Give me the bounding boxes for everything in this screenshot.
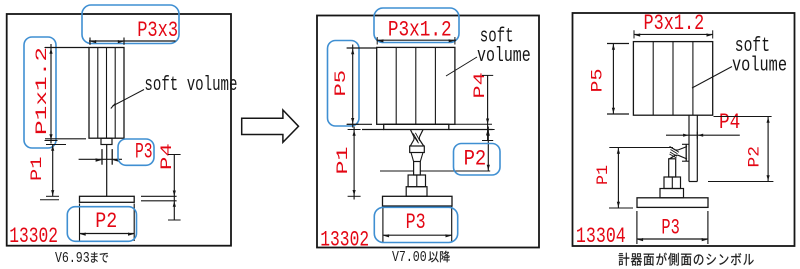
extension line (screw top level) bbox=[609, 147, 673, 149]
svg-text:volume: volume bbox=[477, 45, 531, 68]
svg-text:V7.00: V7.00 bbox=[392, 248, 427, 265]
svg-text:P2: P2 bbox=[464, 146, 487, 171]
svg-text:P3x3: P3x3 bbox=[137, 18, 178, 43]
dimension line P1 (screw top to plate bottom) bbox=[609, 148, 633, 209]
dimension line P2 (bar height) bbox=[708, 117, 773, 182]
label soft volume bbox=[732, 35, 787, 77]
transition arrow (V6.93 to V7.00) bbox=[242, 110, 299, 142]
panel frame: potentiometer symbol sheet 13304 (side face) bbox=[573, 13, 795, 246]
label soft volume bbox=[477, 26, 531, 68]
callout box P2 bbox=[67, 207, 136, 242]
svg-text:soft volume: soft volume bbox=[144, 74, 237, 97]
svg-text:13302: 13302 bbox=[9, 223, 58, 249]
svg-text:P5: P5 bbox=[332, 70, 350, 97]
svg-text:13302: 13302 bbox=[320, 226, 369, 252]
caption V6.93 made (until V6.93) bbox=[55, 249, 108, 266]
mounting plate bbox=[637, 198, 708, 208]
dimension P3 (plate width) bbox=[383, 206, 452, 243]
svg-text:P2: P2 bbox=[746, 146, 764, 168]
dimension P4 (plate thickness) bbox=[141, 154, 181, 221]
shaft block upper bbox=[664, 177, 681, 189]
dimension line P3x1.2 (element width) bbox=[634, 30, 713, 38]
screw flange bbox=[410, 146, 425, 153]
resistive element R1 body (hatched box) bbox=[89, 48, 124, 139]
shaft block upper bbox=[408, 175, 425, 187]
dimension line P1x1.2 bbox=[45, 44, 90, 144]
dimension line P1 (bar to plate) bbox=[348, 127, 384, 200]
dimension line P1 (shaft length) bbox=[40, 145, 66, 200]
mounting plate bbox=[383, 196, 453, 206]
svg-text:P4: P4 bbox=[719, 110, 740, 135]
leader line to soft volume bbox=[692, 67, 732, 89]
shaft wire to mounting plate bbox=[106, 145, 108, 197]
screw shaft bbox=[414, 162, 421, 176]
dimension P4 (bar thickness) bbox=[666, 132, 740, 139]
svg-text:P3x1.2: P3x1.2 bbox=[388, 17, 452, 42]
callout box P3x3 bbox=[82, 5, 179, 44]
svg-text:P3: P3 bbox=[406, 210, 426, 235]
wiper crossbar / dimension line P3 bbox=[79, 158, 122, 161]
callout box P5 bbox=[328, 41, 360, 127]
panel frame: potentiometer symbol sheet 13302 (V7.00) bbox=[317, 16, 539, 248]
callout box P3 bbox=[118, 139, 154, 165]
callout box P1x1.2 bbox=[24, 37, 56, 148]
dimension line P2 (bar to shoulder) bbox=[449, 127, 495, 172]
svg-text:V6.93: V6.93 bbox=[55, 249, 90, 266]
shaft block lower bbox=[406, 187, 427, 197]
svg-text:P1: P1 bbox=[594, 165, 612, 185]
svg-text:P4: P4 bbox=[158, 143, 176, 170]
adjustment screw (hourglass, side) bbox=[670, 147, 688, 160]
svg-text:P3x1.2: P3x1.2 bbox=[644, 10, 705, 35]
dimension P4 (bar thickness) bbox=[455, 75, 493, 140]
svg-text:13304: 13304 bbox=[576, 223, 626, 249]
wiper contact ticks bbox=[102, 149, 112, 165]
resistive element R2 body (hatched box) bbox=[377, 47, 455, 124]
svg-text:volume: volume bbox=[732, 55, 787, 78]
mounting plate bbox=[80, 196, 135, 202]
dimension P2 (plate width) bbox=[80, 204, 135, 242]
screw taper bbox=[411, 153, 423, 162]
callout box P3x1.2 bbox=[374, 8, 459, 43]
dimension line P3x3 (element width) bbox=[89, 38, 176, 45]
leader line to soft volume bbox=[446, 57, 477, 76]
svg-text:P5: P5 bbox=[589, 69, 607, 93]
svg-text:P3: P3 bbox=[661, 215, 679, 240]
svg-text:P1x1.2: P1x1.2 bbox=[33, 47, 51, 135]
shaft block lower bbox=[660, 189, 684, 198]
callout box P2 bbox=[454, 144, 501, 176]
caption V7.00 and later bbox=[392, 248, 450, 265]
svg-text:P3: P3 bbox=[135, 139, 153, 164]
adjustment screw (hourglass) bbox=[410, 130, 423, 147]
leader line to soft volume bbox=[111, 90, 144, 109]
callout box P3 bbox=[374, 207, 457, 242]
resistive element R3 body (hatched box) bbox=[633, 42, 712, 116]
svg-text:P1: P1 bbox=[334, 147, 352, 175]
dimension P3 (plate width) bbox=[637, 211, 708, 244]
screw shaft bbox=[669, 159, 676, 177]
terminal neck of R1 bbox=[101, 138, 112, 144]
panel frame: potentiometer symbol sheet 13302 (V6.93) bbox=[7, 14, 231, 246]
caption: symbol with instrument face on the side bbox=[619, 253, 754, 266]
wiper housing bar bbox=[384, 124, 449, 129]
screw flange at face bbox=[682, 144, 689, 161]
dimension line P3x1.2 (element width) bbox=[377, 37, 456, 45]
extension line (screw shoulder level) bbox=[380, 170, 490, 172]
svg-text:P2: P2 bbox=[95, 209, 117, 234]
instrument face bar (side view) bbox=[689, 115, 697, 181]
dimension line P5 bbox=[347, 45, 377, 128]
svg-text:P4: P4 bbox=[471, 72, 489, 98]
dimension line P5 bbox=[607, 44, 629, 115]
svg-text:P1: P1 bbox=[28, 157, 46, 182]
